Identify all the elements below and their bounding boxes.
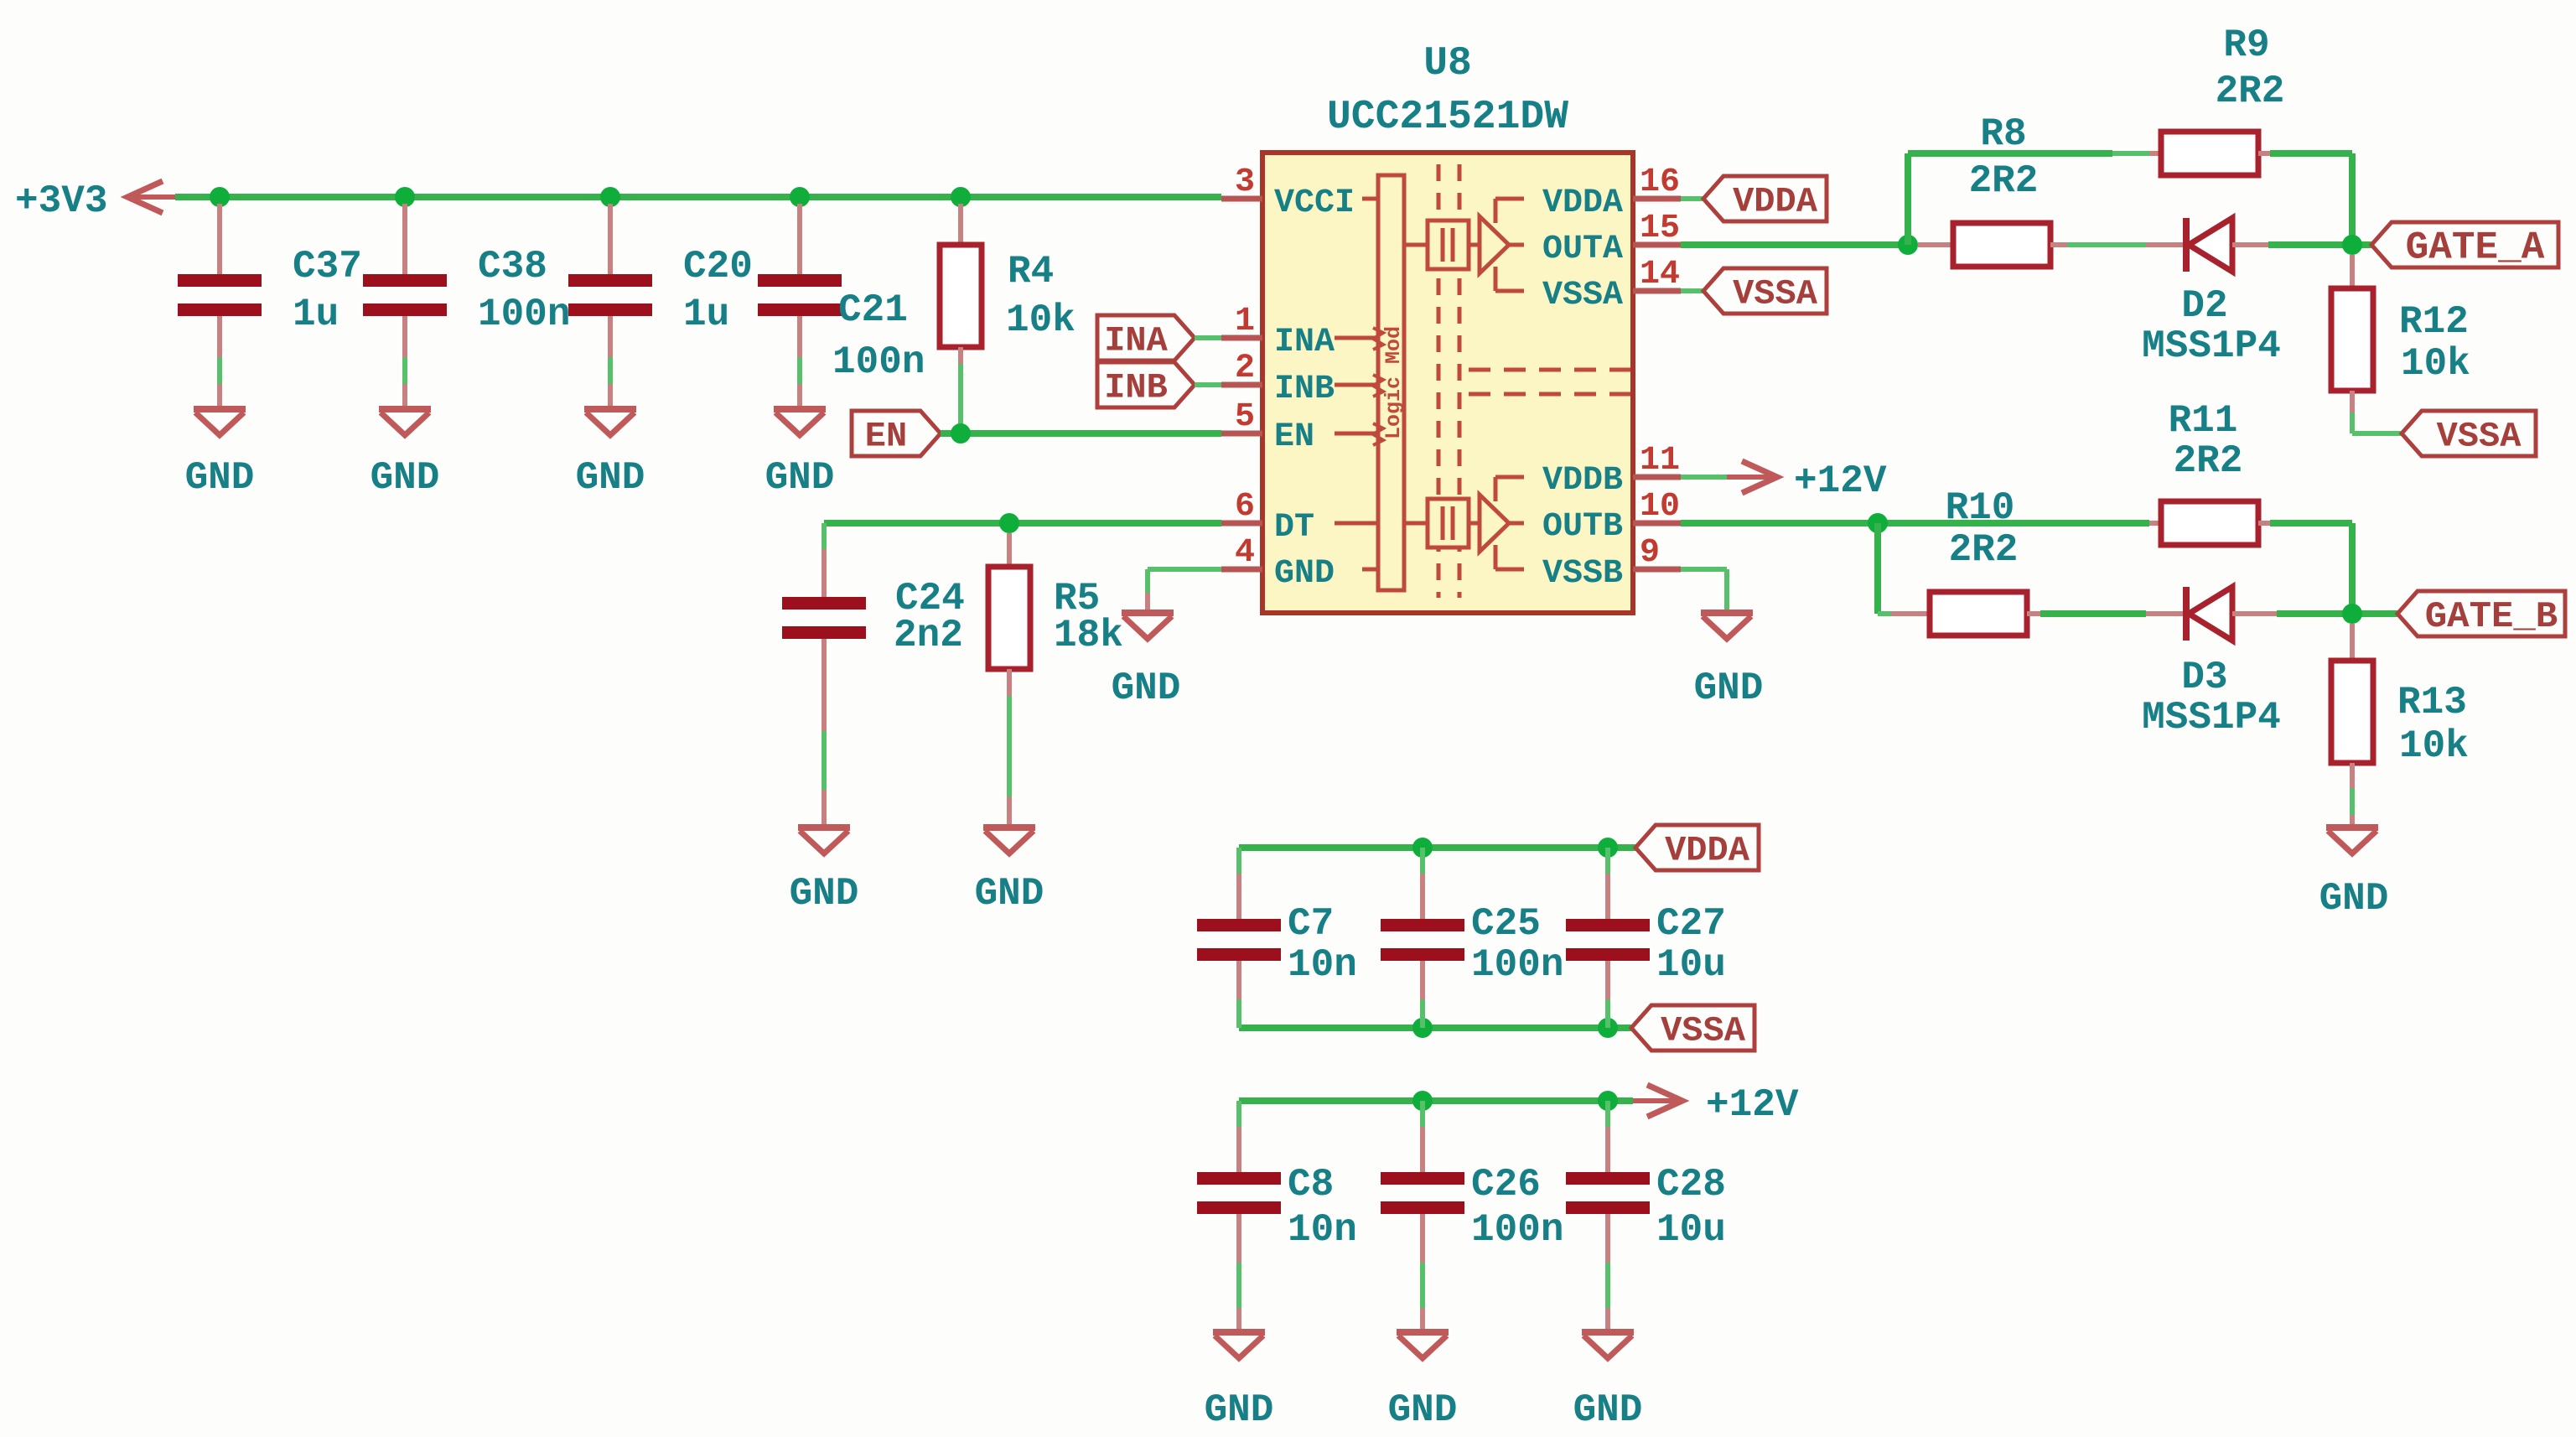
svg-text:VSSB: VSSB [1542,555,1623,593]
svg-text:GND: GND [1205,1388,1274,1432]
resistor R9 2R2 [2149,23,2284,175]
resistor R11 2R2 [2149,399,2270,545]
capacitor C37 1u [178,204,362,408]
resistor R10 2R2 [1891,486,2040,635]
svg-text:1: 1 [1235,303,1255,340]
junction VDDA rail x=1697 [1412,838,1433,858]
capacitor C28 10u [1566,1101,1726,1331]
capacitor C38 100n [363,204,570,408]
wire +12V rail bottom bank [1239,1097,1633,1104]
svg-text:2R2: 2R2 [1969,159,2039,203]
svg-text:100n: 100n [1471,943,1563,987]
resistor R8 2R2 [1918,112,2067,267]
svg-text:15: 15 [1640,210,1680,247]
svg-text:2R2: 2R2 [1949,528,2019,572]
wire pin4 to ground [1148,569,1221,612]
ground symbol below C8 [1205,1332,1274,1432]
svg-text:100n: 100n [832,340,925,384]
svg-text:10u: 10u [1656,1208,1726,1252]
svg-text:INA: INA [1274,324,1335,361]
svg-text:C20: C20 [683,245,753,288]
net label VSSA bottom [1631,1005,1754,1051]
svg-text:1u: 1u [293,293,339,336]
svg-text:2R2: 2R2 [2216,70,2285,113]
wire INB to pin 2 [1195,382,1221,387]
svg-text:GATE_A: GATE_A [2406,226,2545,270]
svg-text:14: 14 [1640,256,1680,293]
svg-text:GND: GND [1112,667,1181,710]
svg-text:GND: GND [975,872,1044,916]
svg-text:U8: U8 [1423,41,1472,86]
svg-text:1u: 1u [683,293,729,336]
net label GATE_A [2371,222,2558,267]
svg-text:C38: C38 [478,245,547,288]
junction OUTB branch [1868,513,1888,533]
diode D3 MSS1P4 [2142,587,2281,739]
wire R10 to D3 [2040,610,2146,617]
power arrow +12V pin11 [1681,459,1887,503]
svg-text:+3V3: +3V3 [15,179,107,223]
junction VSSA rail x=1918 [1598,1018,1618,1038]
svg-text:2R2: 2R2 [2174,439,2243,483]
svg-text:MSS1P4: MSS1P4 [2142,696,2281,739]
U8 right pin names [1542,184,1623,593]
ground symbol below R5 [975,827,1044,916]
svg-text:100n: 100n [1471,1208,1563,1252]
junction on +3V3 rail x=483 [395,187,415,207]
svg-text:D2: D2 [2181,284,2227,328]
junction on +3V3 rail x=954 [790,187,810,207]
svg-text:GND: GND [2319,877,2389,921]
svg-text:OUTA: OUTA [1542,231,1623,268]
svg-text:16: 16 [1640,163,1680,201]
svg-text:VDDA: VDDA [1733,181,1818,221]
svg-text:GND: GND [1388,1388,1458,1432]
svg-text:9: 9 [1640,534,1660,572]
wire R10 branch down [1878,523,1891,614]
svg-text:VSSA: VSSA [1661,1010,1746,1051]
svg-text:Logic Mod: Logic Mod [1381,326,1406,439]
svg-text:GND: GND [185,456,255,500]
capacitor C8 10n [1197,1101,1357,1331]
wire R8 to D2 [2067,242,2146,247]
svg-text:GND: GND [765,456,835,500]
U8 channel B driver symbol [1404,477,1524,569]
resistor R13 10k [2331,624,2469,827]
capacitor C20 1u [568,204,753,408]
svg-text:2n2: 2n2 [894,614,963,657]
net label EN [852,411,941,456]
svg-text:11: 11 [1640,442,1680,480]
capacitor C21 100n [758,204,925,408]
junction DT / R5 [999,513,1019,533]
wire R11 to GATE_B corner [2270,523,2352,614]
svg-text:10k: 10k [2399,724,2469,768]
junction +12V rail x=1918 [1598,1091,1618,1111]
svg-text:2: 2 [1235,350,1255,387]
resistor R4 10k [940,204,1075,433]
ground symbol below C37 [185,409,255,500]
U8 left pin numbers [1235,163,1255,572]
junction VSSA rail x=1697 [1412,1018,1433,1038]
power flag +3V3 [15,179,175,223]
wire +3V3 rail [175,194,1221,200]
capacitor C7 10n [1197,848,1357,1028]
svg-text:VDDA: VDDA [1542,184,1623,222]
svg-text:+12V: +12V [1706,1083,1799,1127]
U8 channel A driver symbol [1404,199,1524,291]
svg-text:C21: C21 [838,288,908,332]
wire R9 to GATE_A corner [2270,153,2352,245]
junction on +3V3 rail x=728 [600,187,620,207]
svg-text:C27: C27 [1656,902,1726,946]
svg-text:R4: R4 [1008,250,1054,293]
svg-text:C37: C37 [293,245,362,288]
ground symbol below C26 [1388,1332,1458,1432]
svg-text:GND: GND [576,456,645,500]
svg-text:10k: 10k [2401,342,2470,386]
U8 left pin names [1274,184,1355,593]
net label GATE_B [2397,591,2565,636]
junction OUTA branch [1898,235,1918,255]
wire D3 to GATE_B [2277,610,2397,617]
ground symbol pin 4 [1112,613,1181,710]
svg-text:INB: INB [1104,367,1168,407]
svg-text:D3: D3 [2181,656,2227,699]
svg-text:10k: 10k [1006,298,1075,342]
svg-text:4: 4 [1235,534,1255,572]
wire EN to pin 5 [941,430,1221,437]
U8 right pin numbers [1640,163,1680,572]
U8 logic block rectangle [1335,175,1406,590]
svg-text:INA: INA [1104,320,1168,361]
svg-text:MSS1P4: MSS1P4 [2142,324,2281,368]
diode D2 MSS1P4 [2142,218,2281,368]
svg-text:R12: R12 [2399,300,2469,344]
wire OUTB [1681,520,2149,527]
svg-text:VDDA: VDDA [1665,830,1750,870]
svg-text:10: 10 [1640,488,1680,526]
ground symbol below C21 [765,409,835,500]
resistor R5 18k [988,533,1123,827]
U8 left pin stubs [1221,199,1262,569]
U8 middle dashed lines [1469,370,1630,394]
svg-text:C7: C7 [1288,902,1334,946]
ground symbol below R13 [2319,827,2389,921]
svg-text:INB: INB [1274,371,1335,408]
junction GATE_B [2342,604,2362,624]
svg-text:R8: R8 [1980,112,2026,156]
net label VSSA pin14 [1681,268,1827,314]
U8 right pin stubs [1633,199,1681,569]
svg-text:R13: R13 [2397,681,2467,724]
net label VDDA pin16 [1681,176,1827,221]
svg-text:GND: GND [371,456,440,500]
wire VDDA rail bottom bank [1239,844,1635,851]
svg-text:C8: C8 [1288,1163,1334,1206]
svg-text:UCC21521DW: UCC21521DW [1327,95,1568,140]
ground symbol below C20 [576,409,645,500]
svg-text:DT: DT [1274,509,1314,547]
svg-text:10n: 10n [1288,1208,1357,1252]
wire OUTA [1681,241,1906,248]
junction on +3V3 rail x=262 [210,187,230,207]
wire INA to pin 1 [1195,335,1221,340]
svg-text:100n: 100n [478,293,570,336]
capacitor C25 100n [1381,848,1563,1028]
net label INB [1097,362,1195,407]
svg-text:R11: R11 [2169,399,2238,443]
junction +12V rail x=1697 [1412,1091,1433,1111]
svg-text:EN: EN [1274,418,1314,456]
junction VDDA rail x=1918 [1598,838,1618,858]
svg-text:VSSA: VSSA [2437,416,2522,456]
ground symbol below C38 [371,409,440,500]
wire R9 branch up [1908,153,2149,245]
resistor R12 10k [2331,255,2470,433]
capacitor C26 100n [1381,1101,1563,1331]
svg-text:GATE_B: GATE_B [2425,596,2558,638]
junction EN / R4 [951,423,971,444]
power arrow +12V bottom [1633,1083,1799,1127]
net label INA [1097,315,1195,361]
wire pin9 to ground [1681,569,1727,612]
net label VDDA bottom [1635,825,1759,870]
U8 isolation dashed lines [1438,164,1459,598]
capacitor C27 10u [1566,848,1726,1028]
svg-text:C26: C26 [1471,1163,1541,1206]
svg-text:GND: GND [1274,555,1335,593]
svg-text:VDDB: VDDB [1542,462,1623,500]
svg-text:6: 6 [1235,488,1255,526]
ground symbol below C28 [1573,1332,1643,1432]
svg-text:VSSA: VSSA [1542,277,1623,314]
svg-text:C28: C28 [1656,1163,1726,1206]
capacitor C24 2n2 [782,549,965,827]
ground symbol below C24 [790,827,859,916]
svg-text:10u: 10u [1656,943,1726,987]
svg-text:GND: GND [1573,1388,1643,1432]
wire D2 to GATE_A [2268,241,2371,248]
ground symbol pin 9 [1694,613,1764,710]
op-amp U8 UCC21521DW gate driver IC [1262,41,1633,613]
svg-text:18k: 18k [1054,614,1123,657]
svg-text:5: 5 [1235,398,1255,436]
svg-text:GND: GND [1694,667,1764,710]
svg-text:VSSA: VSSA [1733,273,1818,314]
svg-text:GND: GND [790,872,859,916]
wire DT net [824,523,1221,549]
svg-text:R10: R10 [1946,486,2015,530]
svg-text:OUTB: OUTB [1542,508,1623,546]
svg-text:VCCI: VCCI [1274,184,1355,222]
junction on +3V3 rail x=1146 [951,187,971,207]
wire VSSA rail bottom bank [1239,1025,1631,1031]
net label VSSA below R12 [2402,411,2536,456]
junction GATE_A [2342,235,2362,255]
svg-text:R9: R9 [2223,23,2269,67]
svg-text:EN: EN [865,416,907,456]
svg-text:10n: 10n [1288,943,1357,987]
svg-text:3: 3 [1235,163,1255,201]
svg-text:C25: C25 [1471,902,1541,946]
svg-text:+12V: +12V [1794,459,1887,503]
